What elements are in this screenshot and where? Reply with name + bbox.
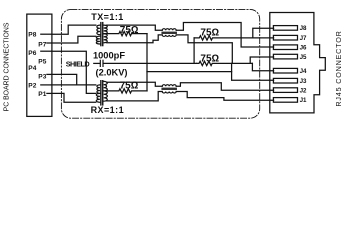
choke RX bottom winding (162, 92, 176, 94)
transformer TX right winding (104, 25, 108, 43)
svg-text:75Ω: 75Ω (120, 81, 139, 92)
wire P3 joining P2 net (52, 74, 77, 85)
RJ45 connector body (270, 13, 326, 113)
PC board connector box (27, 14, 52, 116)
wire P6 to RX center tap (52, 51, 96, 93)
svg-text:SHIELD: SHIELD (66, 60, 90, 69)
contact box J5 (273, 54, 297, 59)
link shield rail to J3 vertical (147, 71, 232, 73)
contact box J8 (273, 26, 297, 31)
resistor 75ohm TX center tap (104, 31, 147, 35)
wire P2 to RX primary top (52, 84, 96, 86)
resistor 75ohm RX center tap (104, 89, 147, 93)
svg-text:J7: J7 (300, 35, 307, 42)
wire RX secondary bottom through choke (107, 92, 163, 101)
contact box J7 (273, 35, 297, 40)
resistor 75ohm lower termination (on shield wire) (197, 61, 253, 65)
transformer RX right winding (104, 81, 108, 101)
wire P1 to RX primary bottom (52, 93, 96, 102)
svg-text:P5: P5 (38, 59, 46, 66)
svg-text:RJ45 CONNECTOR: RJ45 CONNECTOR (334, 30, 343, 106)
wire lower termination to J4 (252, 63, 273, 70)
svg-text:J6: J6 (300, 44, 307, 51)
wire RX secondary top through choke (107, 82, 163, 86)
svg-text:(2.0KV): (2.0KV) (95, 67, 127, 77)
pin P7 lead (47, 42, 52, 44)
dashed module border (61, 9, 259, 118)
pin P2 lead (41, 84, 52, 86)
shield rail vertical (146, 34, 148, 91)
svg-text:75Ω: 75Ω (200, 28, 219, 39)
svg-text:P1: P1 (38, 91, 46, 98)
wire J8 tie to termination line (253, 28, 274, 38)
contact box J3 (273, 78, 297, 83)
svg-text:P6: P6 (28, 50, 36, 57)
contact box J4 (273, 68, 297, 73)
pin P6 lead (41, 50, 52, 52)
svg-text:TX=1:1: TX=1:1 (91, 12, 123, 22)
transformer RX core (100, 81, 102, 105)
transformer RX left winding (96, 85, 100, 102)
contact box J2 (273, 88, 297, 93)
svg-text:P3: P3 (38, 74, 46, 81)
wire P8 to TX primary top (52, 25, 96, 34)
pin P3 lead (47, 73, 52, 75)
transformer TX core (100, 23, 102, 46)
svg-text:J8: J8 (300, 25, 307, 32)
contact box J1 (273, 98, 297, 103)
svg-text:1000pF: 1000pF (93, 50, 125, 60)
svg-text:P2: P2 (28, 83, 36, 90)
svg-text:P8: P8 (28, 32, 36, 39)
wire capacitor to termination network (104, 62, 197, 64)
svg-text:P4: P4 (28, 65, 36, 72)
wire P7 to TX primary bottom (52, 36, 96, 43)
svg-text:75Ω: 75Ω (120, 25, 139, 36)
svg-text:PC BOARD CONNECTIONS: PC BOARD CONNECTIONS (4, 22, 11, 111)
wire RX choke top out to J2 (176, 83, 273, 91)
choke RX core (162, 87, 176, 89)
choke TX top winding (162, 29, 176, 30)
vertical to J3 (232, 63, 274, 80)
capacitor 1000pF plates (99, 60, 101, 66)
wire TX secondary top through choke to J7 (107, 25, 163, 30)
pin P8 lead (41, 33, 52, 35)
svg-text:P7: P7 (38, 41, 46, 48)
pin P1 lead (47, 92, 52, 94)
wire termination to J5 (250, 57, 273, 63)
svg-text:J3: J3 (300, 78, 307, 85)
transformer TX left winding (96, 25, 100, 44)
svg-text:J1: J1 (300, 97, 307, 104)
contact box J6 (273, 45, 297, 50)
wire upper termination resistor to shield wire (193, 38, 195, 64)
wire TX secondary bottom through choke to J8 (107, 35, 163, 43)
choke RX top winding (162, 85, 176, 87)
choke TX bottom winding (162, 35, 176, 37)
wire shield text to capacitor (94, 62, 100, 64)
svg-text:J4: J4 (300, 68, 307, 75)
svg-text:75Ω: 75Ω (200, 54, 219, 65)
choke TX core (162, 31, 176, 33)
resistor 75ohm upper termination (to J7/J8 pair) (194, 36, 274, 40)
svg-text:RX=1:1: RX=1:1 (91, 105, 124, 115)
svg-text:J5: J5 (300, 54, 307, 61)
svg-text:J2: J2 (300, 87, 307, 94)
wire RX choke bottom out to J1 (176, 92, 273, 101)
